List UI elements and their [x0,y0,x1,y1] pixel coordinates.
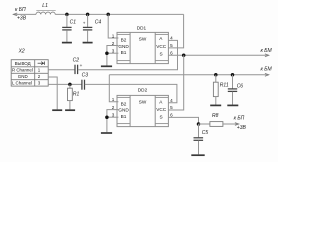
svg-text:+3В: +3В [237,125,247,131]
svg-text:к БМ: к БМ [261,48,273,54]
IC DD1 analog switch [117,25,168,63]
svg-text:X2: X2 [18,49,25,55]
svg-text:A: A [159,99,163,104]
capacitor C6 [228,75,244,105]
node junction rail-C1 [65,13,69,17]
svg-text:VCC: VCC [156,107,167,112]
node arrow "к БМ" lower [261,66,273,76]
wire DD1 pin2+pin3 to ground [107,46,119,66]
wire +3V rail [55,13,183,15]
svg-text:4: 4 [170,98,173,103]
svg-text:2: 2 [38,74,41,79]
wire rail drop to DD1 VCC pin 5 [168,14,183,48]
svg-text:B1: B1 [121,50,127,55]
svg-text:R Channel: R Channel [12,68,33,73]
svg-text:3: 3 [38,80,41,85]
svg-text:R1: R1 [73,92,80,98]
svg-text:C5: C5 [202,130,209,136]
svg-text:L Channel: L Channel [12,80,32,85]
node arrow "к БП +3В" right [234,115,247,131]
svg-text:C4: C4 [95,20,102,26]
inductor L1 [36,3,56,15]
wire switched rail to DD2 pin1 (B2) [109,75,118,102]
svg-text:SW: SW [139,36,147,41]
svg-text:3: 3 [112,48,115,53]
ground (X2 GND) [52,109,62,111]
capacitor C2 (polarized) [73,57,83,74]
svg-text:C3: C3 [82,72,89,78]
ground (DD2) [101,132,112,134]
wire X2 pin2 (GND) to ground [48,77,57,109]
svg-text:к БП: к БП [234,115,245,121]
svg-text:B2: B2 [121,38,127,43]
ground (C4) [83,42,93,44]
svg-text:B1: B1 [121,114,127,119]
svg-text:B2: B2 [121,101,127,106]
svg-text:DD2: DD2 [138,87,148,92]
svg-text:GND: GND [118,108,129,113]
node arrow "к БМ" upper [261,48,273,57]
wire DD1 pin6 (S) output [168,54,268,56]
wire DD1 output down to DD2 VCC pin 5 [168,55,183,110]
ground (C6) [227,104,238,106]
svg-text:6: 6 [170,112,173,117]
svg-text:GND: GND [118,44,129,49]
svg-text:L1: L1 [42,3,48,9]
svg-text:+3В: +3В [17,16,27,22]
svg-text:A: A [159,36,163,41]
capacitor C3 [82,72,89,89]
ground (C5) [191,154,204,156]
svg-text:DD1: DD1 [137,25,147,30]
svg-text:VCC: VCC [156,44,167,49]
svg-text:4: 4 [170,36,173,41]
svg-text:1: 1 [112,33,115,38]
node junction rail-C4 [86,13,90,17]
resistor R8 [199,113,239,126]
node junction R11 [214,73,218,77]
capacitor C5 [194,124,209,154]
svg-text:ВЫВОД: ВЫВОД [15,61,31,66]
svg-text:+: + [80,63,83,68]
node junction C6 [231,73,235,77]
capacitor C4 (polarized) [83,14,102,42]
node junction DD1 pin3 [105,51,109,55]
wire DD2 pin2+pin3 to ground [107,110,119,133]
svg-text:SW: SW [139,100,147,105]
svg-text:C1: C1 [70,20,77,26]
svg-text:5: 5 [170,105,173,110]
svg-text:GND: GND [18,74,28,79]
wire X2 pin1 (R Channel) to C2 [48,69,75,71]
svg-text:1: 1 [112,97,115,102]
wire switched rail (lower к БМ) [109,74,268,76]
ground (R11) [210,104,221,106]
ground (R1) [65,109,75,111]
svg-text:C2: C2 [73,57,80,63]
svg-text:5: 5 [170,43,173,48]
node junction DD2 pin3 [105,115,109,119]
ground (C1) [62,42,72,44]
svg-text:S: S [160,115,163,120]
node +3V input arrow "к БП" [13,7,36,22]
connector X2 [11,49,48,87]
node junction rail-DD1.B2 [106,13,110,17]
svg-text:к БП: к БП [15,7,26,13]
resistor R11 [213,75,228,105]
svg-text:к БМ: к БМ [261,66,273,72]
wire DD2 pin6 (S) to R8 node [168,117,198,124]
capacitor C1 [62,14,76,42]
IC DD2 analog switch [117,87,168,126]
wire C2 to DD1 pin4 (A) [78,40,178,69]
svg-text:R8: R8 [212,113,219,119]
wire C3 to DD2 pin4 (A) [85,84,177,102]
resistor R1 [68,84,80,109]
svg-text:6: 6 [170,50,173,55]
ground (DD1) [101,65,112,67]
node junction L-channel / R1 [68,83,72,87]
node junction DD1 output [182,54,186,58]
svg-text:C6: C6 [237,84,244,90]
svg-text:R11: R11 [220,83,229,89]
svg-text:+: + [83,20,86,25]
svg-text:1: 1 [38,68,41,73]
wire X2 pin3 (L Channel) to C3 [48,83,82,85]
node junction R8/C5 [197,122,201,126]
wire rail to DD1 pin1 (B2) [108,14,118,38]
svg-text:S: S [160,51,163,56]
